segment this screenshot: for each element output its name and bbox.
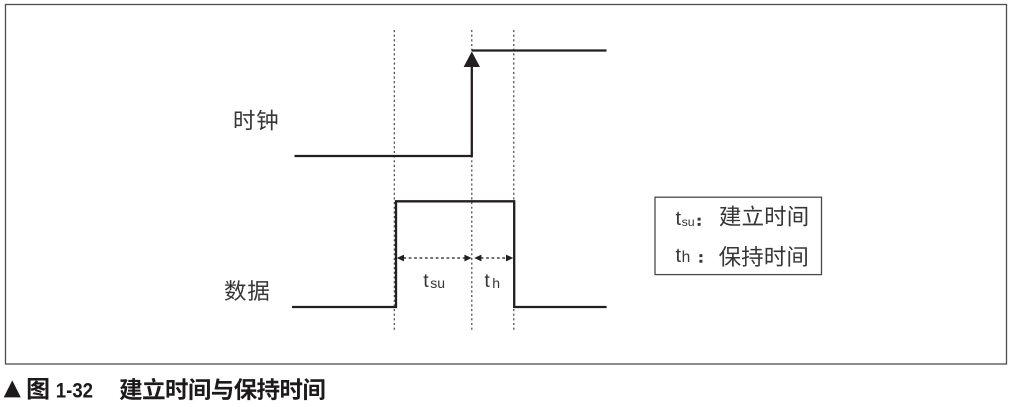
svg-text:t: t (484, 270, 490, 292)
legend text 保持时间 (719, 246, 807, 267)
svg-text:t: t (676, 208, 682, 230)
caption title 建立时间与保持时间 (120, 378, 325, 400)
caption triangle marker (4, 380, 21, 397)
clock edge arrowhead (464, 52, 480, 68)
clock low segment (295, 155, 472, 157)
svg-text:t: t (676, 245, 682, 267)
data label 数据 (225, 280, 269, 301)
svg-text:h: h (682, 249, 691, 266)
guide dotted line 3 (513, 30, 515, 332)
legend colon 1 (698, 218, 701, 226)
clock high segment (472, 49, 607, 51)
legend text 建立时间 (720, 205, 808, 226)
guide dotted line 1 (393, 30, 395, 332)
clock label 时钟 (235, 110, 278, 131)
svg-text:su: su (682, 215, 695, 229)
caption marker 图 (28, 378, 49, 400)
svg-text:su: su (430, 275, 445, 291)
clock rising edge (471, 62, 473, 157)
legend colon 2 (699, 254, 702, 262)
guide dotted line 2 (471, 30, 473, 332)
setup time dimension arrow (397, 255, 472, 262)
svg-text:1-32: 1-32 (56, 380, 93, 403)
data waveform pulse (292, 201, 607, 307)
legend box (655, 197, 822, 274)
svg-text:t: t (423, 270, 429, 292)
hold time dimension arrow (474, 255, 513, 262)
svg-text:h: h (492, 275, 500, 291)
